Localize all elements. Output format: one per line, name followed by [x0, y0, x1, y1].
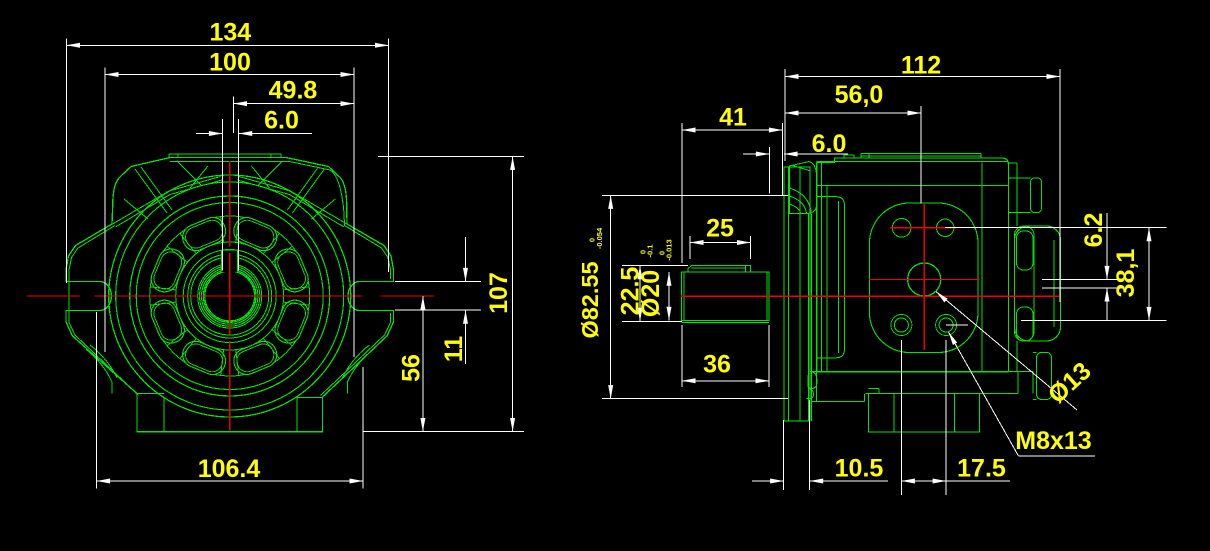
inner race circles	[183, 250, 276, 343]
svg-text:134: 134	[209, 19, 251, 47]
mounting foot left	[137, 394, 164, 432]
svg-text:10.5: 10.5	[835, 455, 884, 483]
pump housing outline (front view)	[66, 158, 394, 432]
bottom foot block	[869, 389, 980, 432]
cage bridge lines	[150, 217, 309, 376]
svg-text:25: 25	[706, 215, 734, 243]
svg-text:107: 107	[485, 272, 513, 314]
dimension 25 key length	[690, 215, 751, 260]
flange bottom curls	[807, 372, 865, 402]
flange top flap	[790, 162, 817, 214]
lower-left corner gusset	[86, 345, 117, 394]
svg-text:-0.054: -0.054	[595, 227, 604, 249]
dimension 36 shaft length	[682, 325, 769, 387]
drive shaft	[681, 272, 769, 322]
svg-text:112: 112	[901, 52, 941, 80]
svg-text:-0.1: -0.1	[646, 245, 655, 258]
dimension 6.0 keyway width	[196, 107, 312, 137]
port face hole upper-right	[937, 219, 954, 236]
shaft bore circles	[198, 264, 262, 328]
dimension 106.4	[97, 312, 363, 489]
housing inner contour lines	[69, 162, 391, 396]
dimension 22.5	[617, 245, 689, 322]
rear cover edge	[1009, 163, 1018, 372]
svg-text:49.8: 49.8	[269, 77, 318, 105]
body outer circle pair	[109, 175, 351, 417]
pump body block (side view)	[817, 158, 1009, 372]
center hole horizontal centerline	[870, 279, 980, 281]
dimension 11 slot width	[395, 237, 481, 364]
center bearing hole Ø13	[908, 263, 941, 296]
leader Ø13	[936, 292, 1097, 411]
dimension 6.0 shaft gap	[743, 130, 848, 194]
dimension 134 overall width	[67, 19, 389, 284]
dimension 56,0	[785, 81, 921, 204]
bearing cage inner circle	[176, 242, 284, 350]
shaft key	[688, 266, 751, 273]
mounting foot right	[297, 398, 323, 432]
leader M8x13	[949, 332, 1096, 456]
svg-text:106.4: 106.4	[198, 455, 261, 483]
front view vertical centerline	[229, 161, 231, 431]
dimension 100	[105, 49, 354, 358]
upper-right corner ribs	[237, 161, 347, 227]
keyway extension lines (white key slot)	[222, 119, 238, 270]
dimension 56	[398, 296, 426, 432]
body internal corner strip	[817, 197, 845, 358]
svg-text:56: 56	[398, 354, 426, 382]
upper holes horizontal centerline	[890, 227, 957, 229]
lower-right corner gusset	[342, 345, 373, 394]
svg-text:36: 36	[703, 351, 731, 379]
front cover circle pair	[130, 196, 330, 396]
dimension 41	[682, 104, 782, 264]
dimension 6.2 port	[1042, 213, 1122, 321]
svg-text:41: 41	[719, 104, 747, 132]
dimension 17.5	[901, 340, 1010, 495]
svg-text:6.0: 6.0	[264, 107, 299, 135]
svg-text:Ø82.55: Ø82.55	[577, 261, 603, 338]
svg-text:6.2: 6.2	[1080, 213, 1108, 248]
svg-text:38,1: 38,1	[1112, 249, 1140, 298]
housing top lip	[169, 154, 281, 158]
svg-text:100: 100	[209, 49, 251, 77]
threaded hole M8 right	[936, 315, 968, 336]
bearing rollers (8 slots)	[147, 214, 312, 379]
dimension 38,1	[945, 228, 1166, 321]
svg-text:M8x13: M8x13	[1015, 427, 1091, 455]
body bottom step	[810, 372, 1033, 394]
bottom port tab	[1033, 352, 1052, 399]
svg-text:Ø20: Ø20	[637, 270, 665, 317]
body internal horizontal lines	[817, 185, 1009, 187]
port face hole upper-left	[892, 219, 911, 238]
front view horizontal centerline	[27, 295, 434, 297]
svg-text:-0.013: -0.013	[665, 239, 674, 260]
mounting flange plate	[784, 167, 812, 421]
svg-text:11: 11	[440, 336, 468, 363]
dimension Ø20 shaft	[637, 239, 674, 320]
svg-text:56,0: 56,0	[835, 81, 884, 109]
bearing cage outer circle	[150, 216, 310, 376]
svg-text:17.5: 17.5	[957, 455, 1006, 483]
dimension 112 overall length	[785, 52, 1060, 303]
upper-left corner ribs	[113, 161, 223, 227]
svg-text:6.0: 6.0	[812, 130, 847, 158]
top port tab	[1009, 178, 1042, 213]
side view horizontal centerline	[681, 295, 1059, 297]
threaded hole M8 left	[891, 315, 912, 336]
side view vertical centerline	[923, 204, 925, 350]
side port boss	[1015, 226, 1061, 341]
body top edge lines	[817, 154, 1009, 372]
keyway notch	[221, 250, 237, 272]
dimension 107 overall height	[363, 157, 524, 432]
dimension Ø82.55	[577, 195, 788, 398]
dimension 49.8	[234, 77, 355, 134]
port face plate	[827, 162, 982, 371]
dimension 10.5	[752, 400, 888, 490]
